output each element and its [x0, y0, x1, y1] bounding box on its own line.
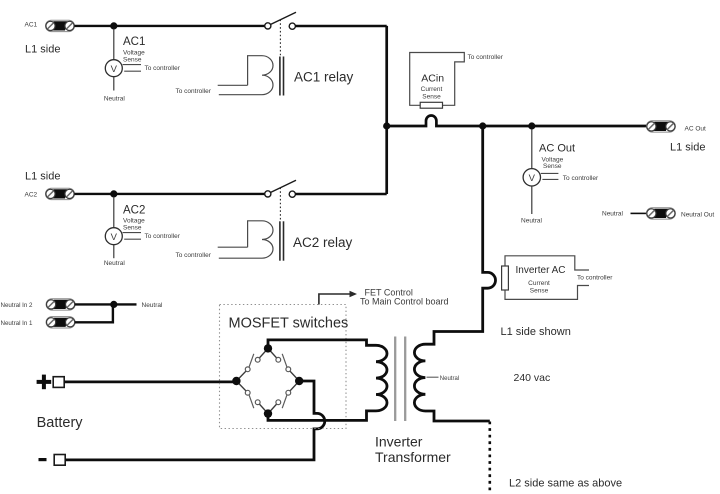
- svg-text:Neutral: Neutral: [104, 260, 126, 267]
- wire AC2 feed: [75, 193, 265, 195]
- transistor switch Q3 contacts (bottom-left): [245, 390, 260, 404]
- svg-text:To Main Control board: To Main Control board: [360, 297, 449, 307]
- svg-text:AC Out: AC Out: [685, 125, 707, 132]
- terminal battery plus: [53, 377, 64, 388]
- svg-text:ACin: ACin: [421, 73, 444, 85]
- svg-text:Neutral: Neutral: [440, 376, 459, 382]
- wire V1 leads to controller: [123, 64, 141, 66]
- svg-text:L1 side: L1 side: [25, 171, 60, 183]
- node bridge right: [295, 377, 303, 385]
- svg-text:L1 side: L1 side: [25, 44, 60, 56]
- node AC1 sense tap: [110, 22, 117, 29]
- relay contact K1: [265, 12, 296, 29]
- svg-text:V: V: [111, 64, 118, 75]
- svg-text:To controller: To controller: [176, 88, 212, 95]
- svg-text:Neutral In 2: Neutral In 2: [1, 302, 34, 309]
- connector J6 Neutral In 1: [46, 317, 75, 328]
- node bridge left: [232, 377, 240, 385]
- wire AC1/AC2 join vertical: [385, 26, 388, 194]
- svg-text:To controller: To controller: [563, 175, 599, 182]
- svg-text:Inverter: Inverter: [375, 434, 423, 450]
- node bus AC out sense tap: [528, 122, 535, 129]
- svg-text:Voltage: Voltage: [123, 217, 145, 224]
- svg-text:Neutral: Neutral: [142, 302, 164, 309]
- resistor ACin shunt: [420, 102, 442, 108]
- MOSFET bridge branch wires: [236, 348, 299, 413]
- battery plus symbol: [37, 375, 52, 390]
- MOSFET switches dotted enclosure: [220, 305, 347, 429]
- wire main AC bus with CT loop hop: [387, 115, 647, 126]
- svg-text:Inverter AC: Inverter AC: [516, 265, 566, 276]
- transistor switch Q2 contacts (top-right): [276, 357, 291, 371]
- svg-text:Sense: Sense: [422, 94, 441, 101]
- transformer T1 core: [394, 337, 396, 422]
- wire neutral in 1: [75, 306, 113, 322]
- transistor switch Q4 contacts (bottom-right): [276, 390, 291, 404]
- voltmeter V2: [105, 228, 122, 245]
- wire dotted L2 continuation: [488, 422, 491, 494]
- svg-text:L2 side same as above: L2 side same as above: [509, 477, 622, 489]
- svg-text:AC1: AC1: [123, 36, 145, 48]
- wire neutral in 2: [75, 303, 137, 305]
- svg-text:Battery: Battery: [37, 415, 84, 431]
- connector J4 Neutral Out: [646, 208, 675, 219]
- wire K1 to bus corner: [295, 25, 386, 27]
- relay K2 core: [279, 221, 281, 260]
- wire V1 neutral lead: [113, 77, 115, 91]
- inverter AC current sense loop: [505, 256, 589, 300]
- svg-text:AC1 relay: AC1 relay: [294, 70, 354, 85]
- battery minus symbol: [39, 458, 47, 461]
- svg-text:To controller: To controller: [145, 233, 181, 240]
- wire battery minus to bridge right node (with hop): [66, 381, 325, 460]
- svg-text:Neutral In 1: Neutral In 1: [1, 320, 34, 327]
- wire dotted actuator link K1: [279, 20, 281, 56]
- svg-text:Current: Current: [421, 86, 443, 93]
- svg-text:To controller: To controller: [176, 252, 212, 259]
- terminal battery minus: [54, 455, 65, 466]
- relay coil K2: [218, 221, 273, 258]
- wire V2 leads to controller: [123, 232, 141, 234]
- node bridge top: [264, 344, 272, 352]
- svg-text:Transformer: Transformer: [375, 449, 451, 465]
- connector J3 AC Out: [646, 121, 675, 132]
- svg-text:AC2: AC2: [25, 192, 38, 199]
- svg-text:Sense: Sense: [530, 288, 549, 295]
- wire FET control bracket with arrow: [319, 294, 351, 305]
- svg-text:To controller: To controller: [577, 275, 613, 282]
- svg-text:Current: Current: [528, 280, 550, 287]
- wire AC Out sense drop: [531, 129, 533, 169]
- wire K2 to bus corner: [295, 193, 386, 195]
- connector J5 Neutral In 2: [46, 299, 75, 310]
- svg-text:MOSFET switches: MOSFET switches: [229, 316, 349, 332]
- relay coil K1: [218, 56, 273, 95]
- ACin current sense loop: [410, 53, 465, 106]
- inductor T1 secondary winding with leads and AC bus drop (CT hop): [414, 126, 495, 421]
- svg-text:Neutral: Neutral: [104, 95, 126, 102]
- svg-text:Sense: Sense: [543, 163, 562, 170]
- wire AC1 feed: [75, 25, 265, 27]
- wire V3 neutral lead: [531, 186, 533, 214]
- node neutral join: [110, 301, 117, 308]
- svg-text:L1 side: L1 side: [670, 142, 705, 154]
- svg-text:240 vac: 240 vac: [514, 372, 551, 384]
- wire battery plus to bridge: [65, 380, 237, 383]
- svg-text:Neutral: Neutral: [602, 211, 624, 218]
- node bus to inverter tap: [479, 122, 486, 129]
- svg-text:To controller: To controller: [468, 54, 504, 61]
- transistor switch Q1 contacts (top-left): [245, 357, 260, 371]
- svg-text:L1 side shown: L1 side shown: [501, 326, 571, 338]
- svg-text:Sense: Sense: [123, 225, 142, 232]
- wire neutral out stub: [631, 212, 647, 214]
- connector J1 AC1 in: [46, 20, 75, 31]
- relay contact K2: [265, 180, 296, 197]
- resistor inverter AC shunt: [502, 266, 509, 290]
- wire V3 leads to controller: [541, 172, 559, 174]
- svg-text:AC2 relay: AC2 relay: [293, 235, 353, 250]
- voltmeter V3 AC Out: [523, 169, 540, 186]
- voltmeter V1: [105, 60, 122, 77]
- svg-text:V: V: [111, 232, 118, 243]
- node AC2 sense tap: [110, 190, 117, 197]
- connector J2 AC2 in: [46, 188, 75, 199]
- svg-text:AC2: AC2: [123, 205, 145, 217]
- wire AC1 sense drop: [113, 29, 115, 60]
- svg-text:Voltage: Voltage: [123, 49, 145, 56]
- wire V2 neutral lead: [113, 245, 115, 258]
- wire neutral center tap: [427, 376, 439, 378]
- wire AC2 sense drop: [113, 197, 115, 228]
- wire dotted actuator link K2: [279, 188, 281, 221]
- svg-text:To controller: To controller: [145, 65, 181, 72]
- node bus junction: [383, 122, 390, 129]
- svg-text:AC1: AC1: [25, 22, 38, 29]
- svg-text:Neutral Out: Neutral Out: [681, 212, 714, 219]
- relay K1 core: [279, 57, 281, 96]
- svg-text:Sense: Sense: [123, 57, 142, 64]
- svg-text:V: V: [529, 173, 536, 184]
- svg-text:Neutral: Neutral: [521, 217, 543, 224]
- node bridge bottom: [264, 409, 272, 417]
- inductor T1 primary winding with leads: [268, 340, 387, 421]
- svg-text:AC Out: AC Out: [539, 143, 575, 155]
